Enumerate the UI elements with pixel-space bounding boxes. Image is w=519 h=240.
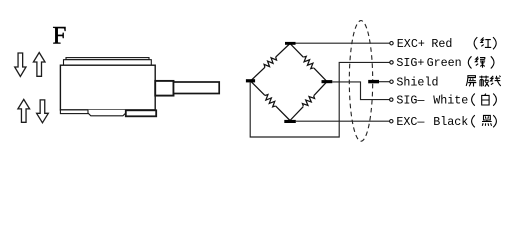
node top bbox=[285, 42, 296, 45]
resistor R2 (bridge top-right arm) bbox=[290, 44, 327, 82]
node left bbox=[246, 79, 255, 82]
load cell cable bbox=[174, 82, 220, 94]
label (black) fullwidth parens + hei char bbox=[472, 115, 497, 127]
force arrow down (bottom-right) bbox=[37, 100, 49, 123]
label SIG+ Green bbox=[396, 56, 461, 70]
wire EXC+ (top node to terminal) bbox=[296, 42, 394, 45]
svg-text:F: F bbox=[53, 23, 67, 50]
label (green) fullwidth parens + lv char bbox=[468, 56, 494, 68]
force arrow up (top-right) bbox=[33, 53, 45, 77]
label EXC- Black bbox=[396, 115, 468, 129]
label EXC+ Red bbox=[397, 37, 453, 51]
load cell connector stub bbox=[155, 81, 173, 96]
wire SIG- (right node, step down to terminal) bbox=[332, 82, 393, 101]
shield bar (cable shield tap) bbox=[368, 80, 379, 83]
svg-text:Shield: Shield bbox=[396, 75, 438, 89]
load cell body bbox=[60, 65, 155, 110]
wire EXC- (bottom node to terminal) bbox=[296, 120, 393, 123]
svg-text:Black: Black bbox=[433, 115, 468, 129]
label pingbixian (shield wire) chars bbox=[466, 76, 501, 87]
svg-text:Green: Green bbox=[427, 56, 462, 70]
force arrow down (top-left) bbox=[15, 53, 26, 77]
label (red) fullwidth parens + hong char bbox=[474, 37, 496, 49]
label SIG- White bbox=[396, 93, 468, 107]
label Shield bbox=[396, 75, 438, 89]
wire SIG+ (left node, down-around riser to terminal) bbox=[250, 61, 393, 137]
svg-text:EXC—: EXC— bbox=[396, 115, 425, 129]
cable ellipse (dashed) bbox=[349, 21, 372, 142]
svg-text:SIG+: SIG+ bbox=[396, 56, 424, 70]
load cell base strip bbox=[60, 110, 156, 116]
svg-text:EXC+: EXC+ bbox=[397, 37, 425, 51]
force arrow up (bottom-left) bbox=[18, 99, 30, 122]
node bottom bbox=[284, 120, 296, 123]
node right bbox=[322, 80, 333, 83]
resistor R1 (bridge top-left arm) bbox=[251, 44, 291, 82]
svg-text:SIG—: SIG— bbox=[396, 93, 425, 107]
resistor R3 (bridge bottom-left arm) bbox=[251, 81, 291, 121]
wire Shield (shield bar to terminal) bbox=[379, 80, 393, 83]
svg-text:Red: Red bbox=[431, 37, 452, 51]
load cell top cap bbox=[64, 58, 152, 66]
svg-text:White: White bbox=[433, 93, 468, 107]
label (white) fullwidth parens + bai char bbox=[472, 94, 497, 106]
resistor R4 (bridge bottom-right arm) bbox=[290, 82, 327, 121]
